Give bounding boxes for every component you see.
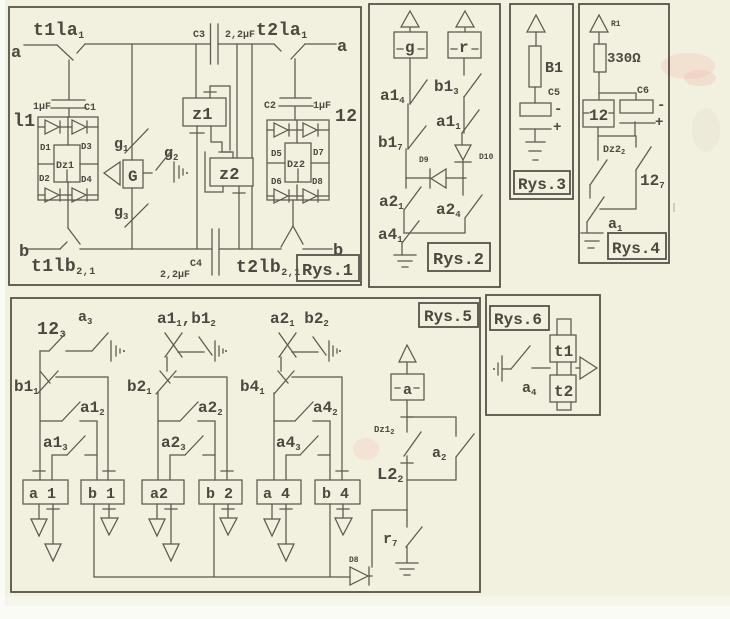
svg-text:C3: C3: [193, 30, 205, 41]
svg-text:330Ω: 330Ω: [607, 51, 641, 67]
capacitor C4: [212, 229, 219, 275]
wire to b right: [303, 248, 332, 250]
junction: [103, 470, 115, 472]
svg-text:b 2: b 2: [206, 486, 233, 503]
wire 12 down: [597, 127, 599, 160]
svg-text:b 1: b 1: [88, 486, 115, 503]
earphone: [493, 368, 495, 370]
earphone 1: [111, 341, 120, 361]
generator G: [123, 160, 143, 188]
transistor t2: [274, 44, 305, 98]
diode D6: [267, 189, 297, 203]
wire a top-left: [24, 44, 57, 46]
wire to diode D9: [406, 177, 430, 179]
capacitor C5: [520, 103, 551, 116]
junction plus below z1: [190, 132, 204, 134]
antenna arrow left: [401, 11, 419, 32]
wire: [407, 104, 409, 149]
svg-text:D5: D5: [271, 149, 282, 159]
node center line l2: [296, 120, 298, 200]
svg-text:R1: R1: [611, 20, 621, 29]
svg-text:a 1: a 1: [29, 486, 56, 503]
wire z2 right drop: [236, 44, 238, 158]
relay frame bottom: [557, 402, 571, 410]
svg-text:r: r: [459, 39, 469, 57]
wire col1 left: [39, 393, 41, 480]
figure frame Rys.5: [11, 298, 480, 592]
svg-text:g: g: [405, 39, 415, 57]
wire far right drop: [251, 44, 253, 249]
junction: [401, 416, 413, 418]
diode bridge l1 frame: [38, 117, 98, 200]
antenna arrow: [590, 15, 608, 44]
wire bottom bus right: [219, 248, 281, 250]
block 12: [583, 100, 614, 127]
svg-text:12: 12: [335, 107, 358, 127]
diode D10: [455, 145, 471, 178]
output arrow a1 right: [45, 504, 61, 561]
block g: [394, 32, 427, 58]
block a4: [257, 480, 301, 504]
svg-text:1µF: 1µF: [33, 102, 51, 113]
antenna arrow right: [456, 11, 474, 32]
wire r down: [463, 58, 465, 75]
ground: [396, 563, 418, 575]
svg-text:D8: D8: [312, 177, 323, 187]
diode bridge l2 frame: [267, 120, 329, 200]
wire branch to C6: [599, 93, 636, 100]
svg-text:D8: D8: [349, 556, 359, 565]
svg-text:a: a: [337, 38, 347, 57]
wire col2 left: [157, 393, 159, 480]
junction plus above z2: [219, 151, 231, 153]
resistor B1: [529, 46, 541, 87]
ground: [581, 233, 603, 248]
output arrow a4 left: [264, 504, 280, 536]
svg-text:Dz1: Dz1: [56, 161, 74, 172]
wire bus col3: [292, 377, 342, 480]
zener Dz2: [285, 143, 311, 182]
title box Rys.6: [490, 306, 549, 330]
block a: [391, 374, 424, 400]
figure frame Rys.4: [579, 4, 669, 263]
block r: [448, 32, 481, 58]
svg-text:D2: D2: [39, 174, 50, 184]
resistor R1: [594, 44, 606, 72]
svg-text:C4: C4: [190, 259, 202, 270]
ground: [394, 255, 416, 267]
svg-text:a: a: [403, 382, 412, 399]
wire: [463, 97, 465, 133]
wire mid rails l1: [38, 163, 98, 165]
svg-text:Rys.1: Rys.1: [302, 262, 353, 281]
output arrow a1 left: [31, 504, 47, 536]
diode D8: [350, 567, 372, 585]
diode D8b: [297, 189, 329, 203]
wire g down: [409, 58, 411, 104]
svg-text:D9: D9: [419, 156, 429, 165]
wire: [406, 400, 408, 417]
block z2: [210, 158, 253, 186]
block b4: [315, 480, 360, 504]
wire b left: [28, 248, 60, 250]
title box Rys.4: [608, 233, 666, 259]
wire to ground: [586, 222, 588, 232]
bottom bus: [94, 576, 350, 578]
diode D1: [38, 120, 68, 134]
wire bus col2: [174, 377, 227, 480]
svg-text:t1la1: t1la1: [33, 21, 85, 42]
relay frame top: [557, 319, 571, 335]
svg-text:2,2µF: 2,2µF: [160, 270, 190, 281]
svg-text:C5: C5: [548, 88, 560, 99]
transistor t2b: [281, 200, 303, 247]
output arrow a2 right: [163, 504, 179, 561]
wire col3 left: [273, 393, 275, 480]
svg-text:Rys.2: Rys.2: [433, 251, 484, 270]
block z1: [183, 98, 226, 126]
junction plus below z2: [233, 192, 245, 194]
wire G drop: [131, 44, 133, 249]
svg-text:G: G: [128, 168, 138, 186]
svg-text:b: b: [19, 243, 29, 262]
wire: [600, 170, 636, 209]
svg-text:D6: D6: [271, 177, 282, 187]
svg-text:Dz2: Dz2: [287, 160, 305, 171]
junction: [336, 470, 348, 472]
wire: [461, 133, 463, 145]
svg-text:b 4: b 4: [322, 486, 349, 503]
output arrow a4 right: [278, 504, 294, 561]
svg-text:Rys.5: Rys.5: [424, 308, 472, 326]
switch Dz1_2: [404, 417, 421, 456]
wire diode to right chain: [446, 177, 466, 179]
svg-text:Rys.3: Rys.3: [518, 176, 566, 194]
block t1: [550, 335, 576, 362]
figure frame Rys.2: [369, 4, 500, 287]
svg-text:1µF: 1µF: [313, 101, 331, 112]
earphone 2: [215, 341, 223, 361]
earphone g2: [174, 162, 183, 182]
svg-text:Rys.6: Rys.6: [494, 311, 542, 329]
svg-text:a21 b22: a21 b22: [270, 310, 329, 329]
wire top bus right: [218, 43, 273, 45]
relay frame mid: [557, 362, 571, 375]
svg-text:a2: a2: [150, 486, 168, 503]
transistor t1b: [60, 228, 80, 249]
zener Dz1: [54, 145, 80, 182]
wire col1: [39, 351, 41, 393]
transistor t1: [57, 44, 85, 99]
switch Dz2: [590, 160, 607, 185]
output arrow b1: [101, 504, 118, 535]
svg-text:l1: l1: [13, 112, 36, 132]
wire z1 to z2: [211, 126, 233, 158]
wire bridge l1 to t1b: [67, 200, 69, 228]
svg-text:a: a: [11, 44, 21, 63]
diode D7: [297, 123, 329, 137]
junction: [221, 470, 233, 472]
svg-text:D4: D4: [81, 175, 92, 185]
wire: [589, 185, 591, 198]
wire to ground: [401, 243, 403, 255]
wire bus col1: [56, 377, 108, 480]
wire top bus left: [85, 43, 210, 45]
block t2: [550, 375, 576, 402]
svg-text:-: -: [554, 102, 562, 118]
svg-text:+: +: [553, 120, 561, 136]
wire: [598, 72, 600, 100]
svg-text:a 4: a 4: [263, 486, 290, 503]
wire mid rails l2: [267, 162, 329, 164]
output arrow b4: [335, 504, 352, 535]
title box Rys.1: [297, 255, 359, 281]
block b1: [81, 480, 124, 504]
svg-text:+: +: [655, 115, 663, 131]
figure frame Rys.1: [9, 7, 361, 285]
junction: [33, 470, 45, 472]
wire z2 left loop: [205, 152, 223, 192]
ground: [526, 142, 545, 160]
wire branch diode: [372, 510, 407, 567]
wire: [534, 129, 536, 141]
wire z1 drop: [195, 44, 197, 98]
antenna arrow: [527, 15, 545, 46]
diode D9: [430, 169, 446, 188]
svg-text:z1: z1: [192, 106, 212, 125]
capacitor C6: [620, 100, 653, 113]
diode D4: [68, 188, 98, 202]
block a2: [142, 480, 184, 504]
antenna arrow: [399, 345, 416, 374]
svg-text:12: 12: [589, 107, 608, 125]
diode D3: [68, 120, 98, 134]
switch lower: [587, 197, 604, 222]
wire z1 feedback loop: [210, 86, 230, 150]
svg-text:t2la1: t2la1: [256, 21, 308, 42]
svg-text:D1: D1: [40, 143, 51, 153]
svg-text:D3: D3: [81, 142, 92, 152]
wire z2 bottom drop: [238, 186, 240, 249]
svg-text:C1: C1: [84, 103, 96, 114]
svg-text:t2: t2: [554, 383, 573, 401]
svg-text:Rys.4: Rys.4: [612, 240, 660, 258]
title box Rys.5: [419, 303, 478, 327]
diode D5: [267, 123, 297, 137]
figure frame Rys.3: [510, 4, 573, 199]
svg-text:2,2µF: 2,2µF: [225, 30, 255, 41]
svg-text:D10: D10: [479, 153, 494, 162]
output arrow b2: [220, 504, 237, 535]
svg-text:D7: D7: [313, 148, 324, 158]
svg-text:-: -: [657, 98, 665, 114]
figure frame Rys.6: [486, 295, 600, 415]
wire: [403, 210, 405, 233]
svg-text:t1: t1: [554, 343, 573, 361]
wire b4 to bus: [329, 504, 331, 577]
earphone 3: [329, 341, 337, 361]
wire: [534, 87, 536, 103]
svg-text:z2: z2: [219, 166, 239, 185]
output arrow a2 left: [149, 504, 165, 536]
svg-text:B1: B1: [545, 60, 563, 77]
wire z1 bottom drop: [196, 126, 198, 249]
svg-text:C2: C2: [264, 101, 276, 112]
svg-text:C6: C6: [637, 86, 649, 97]
wire branch a2: [407, 417, 456, 436]
block b2: [199, 480, 242, 504]
wire: [405, 149, 407, 178]
node center line l1: [67, 117, 69, 200]
title box Rys.2: [428, 243, 490, 271]
output buffer triangle: [576, 357, 597, 379]
wire b2 to bus: [213, 504, 215, 577]
svg-text:b: b: [333, 242, 343, 261]
wire to a right: [305, 43, 336, 45]
wire b1 to bus: [93, 504, 95, 577]
capacitor C3: [211, 24, 219, 64]
junction plus above z1: [204, 91, 216, 93]
block a1: [23, 480, 68, 504]
wire C6 down: [598, 122, 635, 136]
svg-text:a11,b12: a11,b12: [157, 310, 216, 329]
diode D2: [38, 188, 68, 202]
wire bottom bus left: [80, 248, 212, 250]
title box Rys.3: [514, 171, 570, 194]
wire: [532, 367, 550, 369]
